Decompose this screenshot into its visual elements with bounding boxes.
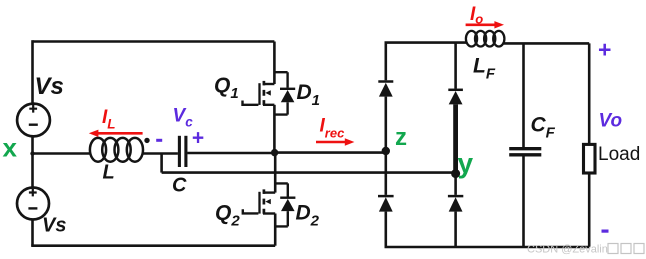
diode D2 top connection [275, 183, 288, 196]
transistor Q2 drain vertical [274, 153, 277, 193]
wire: midpoint to node z [274, 151, 385, 154]
svg-text:L: L [103, 162, 115, 184]
svg-text:C: C [172, 175, 187, 197]
label minus (capacitor) [156, 139, 162, 142]
capacitor C right plate [184, 136, 187, 167]
wire: bold segment diode to node y [453, 104, 458, 173]
wire: node y down to lower-middle diode [454, 173, 457, 195]
diode bridge bottom-left cathode bar [378, 195, 394, 198]
diode D2 triangle [281, 199, 295, 211]
wire: bridge left leg lower [384, 212, 387, 247]
node y dot [451, 169, 460, 178]
svg-text:Vo: Vo [599, 111, 623, 132]
svg-text:Load: Load [598, 144, 640, 165]
svg-text:CSDN @Zevalin: CSDN @Zevalin [527, 244, 608, 256]
capacitor CF top plate [509, 147, 541, 150]
voltage source Vs2 plus [29, 189, 37, 197]
voltage source Vs1 plus [29, 105, 37, 113]
transistor Q2 gate bar [258, 192, 260, 214]
wire: inductor to capacitor [142, 152, 178, 155]
transistor Q2 source lead [263, 212, 275, 214]
svg-text:x: x [3, 133, 18, 163]
transistor Q2 gate lead [243, 209, 259, 213]
inductor L loops [90, 138, 106, 162]
voltage source Vs1 circle [17, 104, 50, 137]
wire: load branch lower [588, 173, 591, 247]
wire: node x to inductor [33, 152, 91, 155]
diode bridge top-left cathode bar [378, 80, 393, 83]
diode bridge top-left triangle [379, 83, 393, 97]
transistor Q2 source vertical [274, 214, 277, 246]
wire: lower middle rail to node y [162, 171, 456, 174]
transistor Q1 drain lead [263, 83, 274, 85]
wire: bridge bottom rail [385, 246, 590, 249]
diode D1 triangle [281, 90, 295, 102]
transistor Q1 body arrow [265, 90, 271, 95]
diode bridge top-middle triangle [449, 91, 463, 104]
wire: bridge left leg to node z [384, 97, 387, 151]
wire: bridge middle leg lower [454, 212, 457, 247]
voltage source Vs2 minus [28, 207, 37, 209]
transistor Q1 source lead [263, 104, 274, 106]
inductor polarity dot [144, 138, 149, 143]
transistor Q2 drain lead [263, 191, 275, 193]
svg-text:y: y [458, 148, 474, 179]
wire: CF branch upper [522, 43, 525, 147]
capacitor CF bottom plate [509, 153, 541, 156]
diode bridge bottom-middle cathode bar [448, 195, 463, 198]
transistor Q2 body arrow [265, 199, 271, 204]
wire: bridge left leg upper [384, 42, 387, 81]
wire: bridge middle leg upper [454, 43, 457, 89]
wire: top-left rail [33, 40, 275, 43]
voltage source Vs1 minus [29, 123, 38, 125]
svg-text:Vs: Vs [42, 215, 66, 237]
voltage source Vs2 circle [17, 188, 49, 220]
diode D2 bottom connection [275, 211, 288, 226]
wire: CF branch lower [522, 157, 525, 248]
diode D1 top connection [274, 72, 287, 88]
arrow Irec (red, pointing right) [316, 138, 354, 145]
wire: left vertical upper [31, 40, 34, 103]
arrow Io (red, pointing right) [466, 21, 504, 28]
wire: node z down to lower-left diode [384, 151, 387, 195]
diode D2 cathode bar [280, 196, 295, 198]
diode bridge bottom-middle triangle [449, 197, 463, 211]
node z dot [382, 147, 390, 155]
transistor Q1 channel bars [263, 81, 266, 105]
diode D1 cathode bar [280, 88, 295, 90]
inductor LF loops [466, 31, 477, 47]
wire: load branch upper [588, 43, 591, 144]
wire: between sources [31, 136, 34, 187]
label minus (output) [602, 230, 609, 233]
svg-text:+: + [192, 127, 204, 150]
arrow IL (red, pointing left) [89, 130, 143, 137]
wire: jog down to lower rail [160, 154, 163, 173]
load resistor box [584, 144, 596, 173]
svg-text:z: z [395, 124, 407, 151]
wire: capacitor to half-bridge midpoint [187, 152, 274, 155]
wire: bridge top rail left segment [385, 41, 467, 44]
svg-text:+: + [598, 37, 611, 63]
svg-text:Vs: Vs [35, 73, 64, 100]
wire: left vertical lower [31, 220, 34, 246]
node: half-bridge midpoint dot [271, 149, 278, 156]
wire: bottom-left rail [31, 244, 275, 247]
diode D1 bottom connection [274, 102, 287, 114]
diode bridge top-middle cathode bar [448, 89, 463, 92]
node x junction dot [30, 151, 34, 155]
transistor Q1 source vertical [273, 105, 276, 153]
transistor Q1 drain vertical [273, 42, 276, 85]
capacitor C left plate [178, 136, 181, 167]
wire: bridge top rail right segment [504, 42, 590, 45]
transistor Q1 gate lead [243, 101, 259, 105]
transistor Q1 gate bar [258, 83, 260, 105]
transistor Q2 channel bars [263, 189, 266, 213]
diode bridge bottom-left triangle [379, 197, 393, 211]
